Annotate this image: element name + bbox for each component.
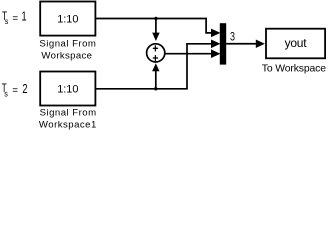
junction node on wire A (154, 17, 157, 20)
svg-text:yout: yout (285, 36, 308, 50)
svg-text:s: s (5, 16, 9, 26)
svg-text:=: = (12, 14, 18, 25)
wire branch to sum top input (152, 19, 159, 42)
annotation Ts = 2 (2, 81, 28, 98)
wire mux output to yout (226, 39, 265, 48)
svg-text:Workspace: Workspace (41, 51, 92, 62)
svg-text:To Workspace: To Workspace (262, 64, 326, 75)
svg-text:s: s (4, 88, 8, 98)
mux block (220, 23, 226, 64)
source block Signal From Workspace1 (1:10) (40, 72, 95, 106)
wire sum output to mux input 3 (165, 49, 221, 58)
sink block yout (266, 29, 325, 59)
svg-text:1: 1 (22, 10, 27, 24)
svg-text:1:10: 1:10 (57, 14, 78, 26)
annotation Ts = 1 (2, 9, 27, 26)
svg-text:3: 3 (230, 29, 235, 43)
svg-text:Signal From: Signal From (40, 108, 97, 119)
svg-text:Signal From: Signal From (39, 38, 96, 49)
source block Signal From Workspace (1:10) (40, 2, 95, 36)
junction node on wire B (154, 87, 157, 90)
sum block (147, 44, 165, 62)
svg-text:=: = (12, 86, 18, 97)
label Signal From Workspace1 (39, 108, 96, 131)
label Signal From Workspace (39, 38, 96, 61)
svg-text:2: 2 (22, 82, 27, 96)
svg-text:Workspace1: Workspace1 (39, 120, 96, 131)
svg-text:1:10: 1:10 (57, 84, 78, 96)
wire block2 output to mux input 2 (95, 40, 220, 89)
wire block1 output to mux input 1 (95, 19, 220, 38)
wire branch to sum bottom input (152, 63, 159, 89)
